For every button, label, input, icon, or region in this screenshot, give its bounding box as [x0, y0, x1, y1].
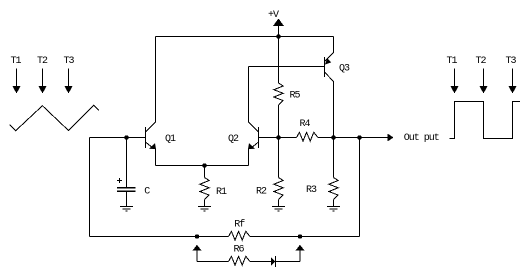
node junction dot output/feedback [357, 135, 361, 139]
wire R6 branch left horizontal [197, 261, 229, 263]
T1 arrow (right) [450, 69, 458, 94]
square output waveform [450, 102, 521, 139]
wire right feedback vertical [359, 138, 361, 237]
resistor Rf [229, 231, 251, 240]
wire top supply rail [156, 36, 334, 38]
svg-text:C: C [144, 187, 150, 198]
transistor Q2 [248, 122, 259, 149]
svg-text:Q2: Q2 [228, 134, 239, 145]
capacitor C [117, 138, 136, 207]
wire Q2 collector to Q3 base [249, 66, 325, 68]
wire Q2 collector vertical [248, 67, 250, 123]
ground below C [120, 207, 133, 212]
svg-text:T2: T2 [476, 56, 487, 67]
wire shared emitter line [156, 165, 249, 167]
svg-text:R1: R1 [216, 187, 227, 198]
svg-text:R4: R4 [300, 119, 311, 130]
diode D1 [271, 256, 276, 267]
wire R6 to diode [250, 261, 271, 263]
svg-text:T3: T3 [64, 56, 75, 67]
T2 arrow (left) [38, 69, 46, 94]
svg-text:R5: R5 [290, 91, 301, 102]
transistor Q3 [325, 53, 334, 82]
wire Q3 emitter vertical [333, 37, 335, 53]
ground below R2 [272, 207, 285, 212]
node junction dot +V rail [276, 34, 280, 38]
wire left feedback vertical [89, 138, 91, 237]
T3 arrow (left) [64, 69, 72, 94]
node junction dot Rf right [298, 234, 302, 238]
ground below R1 [198, 207, 211, 212]
svg-text:+V: +V [268, 10, 279, 21]
wire output line [334, 137, 389, 139]
wire bottom feedback line right [250, 236, 360, 238]
resistor R2 [274, 138, 283, 207]
R6 branch left arrow [193, 245, 202, 262]
svg-text:T3: T3 [506, 56, 517, 67]
node junction dot R5/R2/R4/Q2 base [276, 135, 280, 139]
svg-text:T1: T1 [447, 56, 458, 67]
svg-text:T1: T1 [11, 56, 22, 67]
svg-text:Rf: Rf [234, 218, 245, 230]
resistor R3 [329, 138, 338, 207]
node junction dot Rf left [195, 234, 199, 238]
T1 arrow (left) [12, 69, 20, 94]
resistor R6 [229, 256, 251, 265]
T3 arrow (right) [508, 69, 516, 94]
+V supply arrow [273, 19, 284, 37]
output arrowhead [388, 134, 394, 142]
node junction dot C top [124, 135, 128, 139]
node junction dot R4/Q3/R3/output [331, 135, 335, 139]
transistor Q1 [146, 122, 157, 149]
R6 branch right arrow [296, 245, 305, 262]
svg-text:Q1: Q1 [165, 134, 176, 145]
resistor R1 [200, 166, 209, 207]
svg-text:Out put: Out put [404, 133, 439, 144]
wire Q1 base [90, 137, 146, 139]
svg-text:R3: R3 [306, 185, 317, 196]
resistor R5 [274, 37, 283, 138]
wire diode to right corner [276, 261, 301, 263]
wire Q2 base [259, 137, 279, 139]
svg-text:R2: R2 [256, 187, 267, 198]
svg-text:T2: T2 [37, 56, 48, 67]
T2 arrow (right) [479, 69, 487, 94]
triangle input waveform [10, 105, 99, 130]
node junction dot emitters/R1 [202, 163, 206, 167]
resistor R4 [279, 132, 334, 141]
ground below R3 [327, 207, 340, 212]
wire bottom feedback line left [90, 236, 229, 238]
wire Q1 emitter vertical [155, 149, 157, 166]
svg-text:Q3: Q3 [339, 63, 350, 74]
wire Q1 collector vertical [155, 37, 157, 123]
wire Q3 collector vertical [333, 82, 335, 138]
svg-text:R6: R6 [234, 244, 245, 255]
wire Q2 emitter vertical [248, 149, 250, 166]
